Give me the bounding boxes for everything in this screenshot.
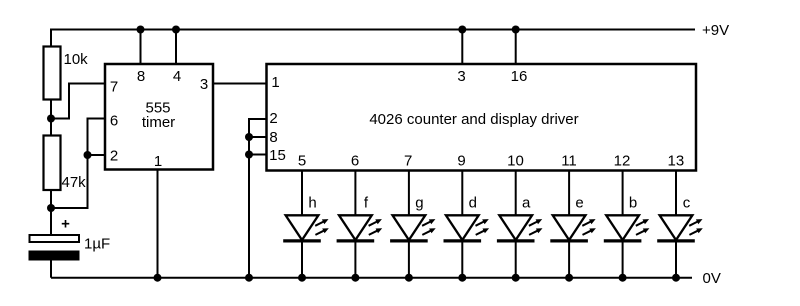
0V ground rail wire (51, 277, 692, 279)
LED h (segment h, pin 5) (283, 171, 329, 282)
svg-text:11: 11 (561, 153, 577, 170)
node: pin 1 on 0V rail (154, 274, 162, 282)
svg-text:b: b (629, 195, 637, 212)
node: pin 16 on +9V rail (512, 26, 520, 34)
wire: pin 15 branch (249, 154, 267, 156)
capacitor C1 negative plate (29, 251, 80, 261)
wire: junction to 555 pin 7 (51, 84, 106, 119)
svg-text:12: 12 (614, 153, 631, 170)
svg-text:47k: 47k (62, 174, 87, 191)
wire: R2 bottom to C1 top (50, 190, 52, 236)
node: R1/R2 junction (47, 115, 55, 123)
wire: 555 pin 1 to 0V rail (157, 170, 159, 278)
svg-text:+9V: +9V (702, 22, 729, 39)
node: R2/C1 junction (47, 204, 55, 212)
node: pin 3 on +9V rail (458, 26, 466, 34)
svg-text:timer: timer (142, 114, 175, 131)
capacitor C1 positive plate (30, 235, 80, 242)
node: pin 8 on +9V rail (137, 26, 145, 34)
+9V supply rail wire (50, 29, 695, 31)
node: pin 6 / pin 2 junction (84, 151, 92, 159)
svg-text:0V: 0V (703, 270, 721, 287)
resistor R1 10k (44, 47, 61, 100)
LED e (segment e, pin 11) (550, 171, 596, 282)
svg-text:f: f (364, 195, 369, 212)
svg-text:3: 3 (457, 68, 465, 85)
node: pin 8 junction (245, 133, 253, 141)
node: pin 15 junction (245, 151, 253, 159)
svg-text:2: 2 (269, 110, 277, 127)
wire: pin 8 branch (249, 136, 267, 138)
svg-text:6: 6 (351, 153, 359, 170)
svg-text:1µF: 1µF (84, 236, 110, 253)
wire: +9V rail down to R1 top (50, 29, 52, 48)
LED d (segment d, pin 9) (444, 171, 490, 282)
svg-text:c: c (683, 195, 691, 212)
svg-text:15: 15 (269, 147, 286, 164)
wire: 4026 pin 16 to +9V rail (515, 30, 517, 65)
wire: C1 to 0V rail (50, 260, 52, 278)
wire: 555 pin 8 to +9V rail (140, 30, 142, 65)
svg-text:10k: 10k (64, 51, 89, 68)
LED a (segment a, pin 10) (497, 171, 543, 282)
resistor R2 47k (44, 136, 61, 191)
LED f (segment f, pin 6) (337, 171, 383, 282)
svg-text:h: h (308, 195, 316, 212)
svg-text:7: 7 (404, 153, 412, 170)
svg-text:+: + (61, 216, 70, 233)
svg-text:3: 3 (200, 76, 208, 93)
wire: branch to 555 pin 2 (88, 154, 107, 156)
svg-text:13: 13 (668, 153, 685, 170)
node: pins 2/8/15 on 0V rail (245, 274, 253, 282)
LED g (segment g, pin 7) (390, 171, 436, 282)
svg-text:7: 7 (110, 79, 118, 96)
svg-text:2: 2 (110, 148, 118, 165)
svg-text:16: 16 (511, 68, 528, 85)
svg-text:4: 4 (173, 68, 181, 85)
svg-text:a: a (522, 195, 531, 212)
IC U2 4026 counter body (267, 64, 697, 171)
svg-text:g: g (415, 195, 423, 212)
svg-text:e: e (575, 195, 583, 212)
wire: 4026 pin 3 to +9V rail (461, 30, 463, 65)
svg-text:8: 8 (269, 129, 277, 146)
wire: 555 pin 3 to 4026 pin 1 (213, 83, 267, 85)
wire: 555 pin 4 to +9V rail (175, 30, 177, 65)
node: pin 4 on +9V rail (172, 26, 180, 34)
wire: junction to 555 pins 6 and 2 (51, 119, 106, 209)
svg-text:9: 9 (457, 153, 465, 170)
svg-text:4026 counter and display drive: 4026 counter and display driver (369, 111, 578, 128)
wire: R1 bottom to R2 top (50, 99, 52, 136)
LED b (segment b, pin 12) (604, 171, 650, 282)
svg-text:6: 6 (110, 113, 118, 130)
svg-text:1: 1 (154, 153, 162, 170)
IC U1 555 timer body (105, 64, 213, 170)
svg-text:d: d (469, 195, 477, 212)
svg-text:8: 8 (137, 68, 145, 85)
svg-text:5: 5 (298, 153, 306, 170)
LED c (segment c, pin 13) (657, 171, 703, 282)
svg-text:1: 1 (271, 74, 279, 91)
svg-text:10: 10 (507, 153, 524, 170)
wire: 4026 pins 2, 8, 15 to 0V rail (249, 119, 267, 278)
